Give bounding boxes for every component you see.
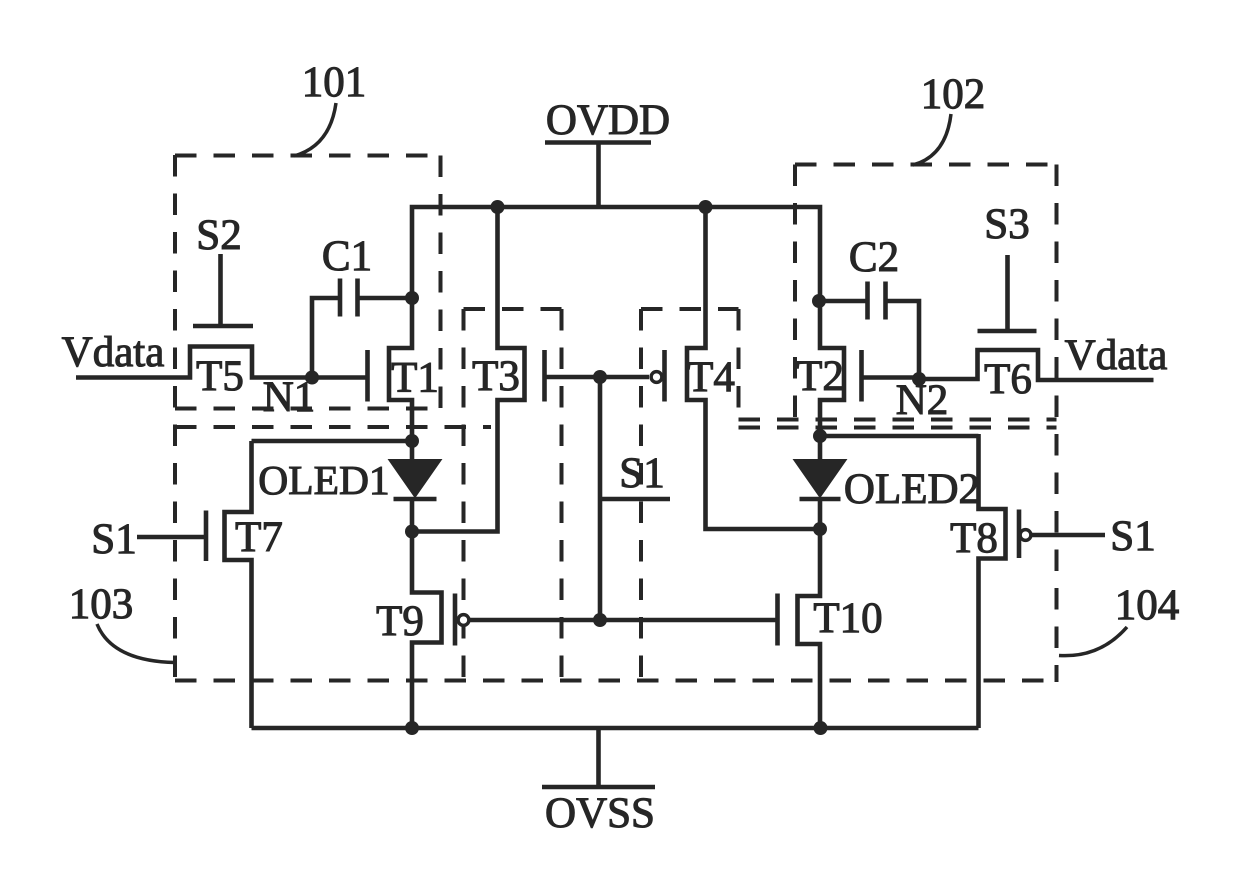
svg-text:OVDD: OVDD	[546, 97, 670, 144]
junction dot rail-T4	[699, 200, 713, 214]
junction dot T3-T4 gates	[593, 370, 607, 384]
junction dot rail-C1-T1	[405, 291, 419, 305]
svg-text:C1: C1	[322, 233, 372, 280]
junction dot OLED2 anode	[813, 429, 827, 443]
dashed box 103 top edge	[175, 425, 491, 429]
svg-text:S1: S1	[1110, 513, 1155, 560]
wire C1 left lead to node N1	[312, 298, 340, 378]
dashed boxes bottom edge	[175, 679, 1057, 683]
transistor T10 gate bar	[775, 594, 780, 646]
wire N1 to T1 gate	[312, 375, 368, 380]
transistor T4 gate bar	[662, 350, 667, 402]
transistor T3 gate bar	[542, 350, 547, 402]
svg-text:T8: T8	[950, 515, 998, 562]
OLED diode OLED1 cathode bar	[394, 497, 437, 501]
transistor T8 channel	[979, 434, 1006, 728]
dashed box 101 bottom edge	[175, 407, 441, 411]
junction dot OLED2 cathode	[813, 522, 827, 536]
svg-text:T7: T7	[235, 514, 283, 561]
node N1 junction dot	[305, 371, 319, 385]
leader curve 102	[913, 114, 951, 165]
transistor T3 channel and drain wire	[412, 205, 525, 532]
junction dot rail-T3	[491, 200, 505, 214]
leader curve 104	[1059, 627, 1127, 656]
transistor T2 channel	[820, 299, 844, 440]
capacitor C1 right plate	[355, 279, 360, 317]
wire OLED1 anode to T7	[252, 439, 413, 444]
svg-text:T2: T2	[796, 353, 844, 400]
inner dashed box T3 left edge	[462, 309, 466, 680]
wire C1 right lead	[358, 296, 413, 301]
leader curve 101	[294, 103, 336, 156]
transistor T6 gate bar	[978, 329, 1037, 334]
OLED diode OLED1 triangle	[389, 460, 442, 498]
junction dot OLED1 cathode	[405, 525, 419, 539]
inner dashed box T4 top edge	[641, 307, 739, 311]
dashed box 101 right edge	[439, 156, 443, 410]
svg-text:S3: S3	[984, 201, 1029, 248]
junction dot rail-T10	[814, 721, 828, 735]
dashed box 102 left edge	[793, 165, 797, 420]
svg-text:T1: T1	[391, 355, 439, 402]
transistor T4 channel and drain wire	[687, 205, 820, 529]
svg-text:S1: S1	[619, 450, 664, 497]
transistor T10 channel	[798, 527, 821, 729]
inner dashed box T3 right edge	[560, 309, 564, 680]
wire S2 stem	[218, 254, 223, 326]
OVSS terminal bar	[542, 785, 655, 790]
svg-text:Vdata: Vdata	[1065, 332, 1168, 379]
wire T9-T10 gate row	[469, 618, 778, 623]
dashed box 101 left edge	[173, 155, 177, 682]
transistor T6 channel with N2 and Vdata wires	[919, 350, 1154, 380]
svg-text:S2: S2	[196, 212, 241, 259]
dashed box 104 top edge	[739, 426, 1057, 430]
svg-text:OLED1: OLED1	[258, 457, 389, 503]
leader curve 103	[97, 624, 175, 663]
wire OLED2 cathode stub	[818, 501, 823, 531]
inner dashed box T4 left edge	[639, 309, 643, 680]
transistor T5 channel with Vdata wire	[76, 347, 314, 378]
wire S1 right	[1031, 533, 1105, 538]
transistor T8 gate bar	[1017, 510, 1022, 559]
svg-text:T6: T6	[984, 356, 1032, 403]
svg-text:N2: N2	[896, 377, 949, 424]
OLED diode OLED2 cathode bar	[800, 497, 841, 501]
wire OLED1 anode stub	[410, 441, 415, 460]
svg-text:OLED2: OLED2	[844, 466, 980, 513]
transistor T9 gate bar	[453, 594, 458, 646]
dashed box 101 top edge	[175, 154, 441, 158]
junction dot rail-C2-T2	[812, 294, 826, 308]
transistor T9 gate bubble	[458, 615, 469, 626]
svg-text:T3: T3	[472, 353, 520, 400]
svg-text:T9: T9	[376, 598, 424, 645]
junction dot rail-T9	[405, 721, 419, 735]
transistor T1 channel	[389, 296, 412, 443]
wire OVDD stem	[596, 143, 601, 210]
capacitor C1 left plate	[338, 279, 343, 317]
svg-text:C2: C2	[849, 234, 899, 281]
svg-text:OVSS: OVSS	[545, 790, 655, 837]
svg-text:N1: N1	[263, 374, 316, 421]
dashed box 102 top edge	[795, 163, 1057, 167]
transistor T2 gate bar	[859, 350, 864, 402]
node N2 junction dot	[912, 372, 926, 386]
wire OLED2 anode stub	[818, 436, 823, 460]
wire top power rail	[412, 207, 820, 303]
wire S1 left	[137, 535, 206, 540]
svg-text:T4: T4	[687, 354, 735, 401]
wire T2 gate to N2	[862, 375, 920, 380]
dashed box 102 right edge	[1055, 165, 1059, 683]
transistor T9 channel	[412, 529, 442, 728]
transistor T5 gate bar	[193, 324, 253, 329]
wire C2 left lead	[819, 299, 868, 304]
svg-text:T5: T5	[196, 353, 244, 400]
transistor T8 gate bubble	[1020, 530, 1031, 541]
svg-text:S1: S1	[91, 516, 136, 563]
wire bottom power rail	[252, 726, 979, 731]
transistor T4 gate bubble	[651, 372, 662, 383]
wire OLED1 cathode stub	[410, 501, 415, 533]
wire C2 right lead to node N2	[886, 301, 920, 379]
transistor T1 gate bar	[365, 350, 370, 402]
wire S3 stem	[1005, 255, 1010, 331]
svg-text:102: 102	[921, 71, 986, 118]
dashed box 102 bottom edge	[739, 418, 1057, 422]
inner dashed box T3 top edge	[464, 307, 562, 311]
inner dashed box T4 right edge	[737, 309, 741, 420]
svg-text:T10: T10	[813, 595, 882, 642]
capacitor C2 left plate	[865, 282, 870, 320]
wire OVSS stem	[596, 728, 601, 787]
OVDD terminal bar	[545, 140, 651, 145]
wire T3 gate to center node	[545, 375, 601, 380]
junction dot OLED1 anode	[405, 434, 419, 448]
wire center S1 riser	[598, 377, 603, 620]
wire center node to T4 gate	[600, 375, 649, 380]
svg-text:103: 103	[69, 581, 134, 628]
junction dot gate row center	[593, 613, 607, 627]
S1 gate bar center	[600, 497, 670, 502]
transistor T7 gate bar	[204, 511, 209, 562]
svg-text:Vdata: Vdata	[62, 329, 165, 376]
svg-text:101: 101	[302, 59, 367, 106]
svg-text:104: 104	[1115, 582, 1180, 629]
transistor T7 channel	[225, 441, 252, 728]
wire OLED2 anode to T8	[820, 434, 979, 439]
OLED diode OLED2 triangle	[794, 460, 847, 498]
capacitor C2 right plate	[883, 282, 888, 320]
